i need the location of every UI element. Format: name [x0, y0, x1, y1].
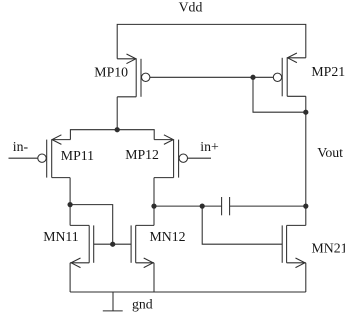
label MP11 [61, 148, 94, 163]
ground rail [70, 291, 306, 293]
wire tap down to MN21 gate [202, 206, 282, 244]
svg-text:Vdd: Vdd [179, 0, 203, 15]
wire in+ lead [188, 157, 212, 159]
label gnd [132, 296, 153, 311]
wire tail rail [70, 130, 154, 140]
svg-text:MP11: MP11 [61, 148, 94, 163]
wire mirror gate-drain connection [70, 205, 113, 245]
node mirror gate junction [111, 242, 115, 246]
label in- [13, 139, 29, 154]
wire MN11 source to ground rail [69, 263, 71, 292]
svg-text:MP21: MP21 [311, 64, 345, 79]
transistor MN11 [70, 225, 94, 267]
svg-text:gnd: gnd [132, 296, 153, 311]
wire gate node to Vout line [253, 77, 306, 112]
wire gate bus MP10-MP21 [150, 76, 273, 78]
net label Vout [317, 145, 343, 160]
node on Vout line [304, 110, 308, 114]
wire MN11-MN12 gate link [94, 243, 131, 245]
transistor MN21 [282, 225, 306, 267]
svg-text:in-: in- [13, 139, 29, 154]
label MN21 [312, 241, 345, 256]
wire MP11 drain column [69, 178, 71, 226]
transistor MP21 [273, 53, 306, 96]
wire MN21 source to ground rail [305, 263, 307, 292]
svg-text:MP10: MP10 [94, 65, 128, 80]
net label Vdd [179, 0, 203, 15]
node tail [115, 128, 119, 132]
label in+ [200, 139, 219, 154]
svg-text:in+: in+ [200, 139, 219, 154]
label MP10 [94, 65, 128, 80]
svg-text:MP12: MP12 [125, 147, 159, 162]
label MN12 [150, 229, 186, 244]
ground symbol [103, 292, 123, 311]
node first stage output [152, 204, 156, 208]
node capacitor tap [200, 204, 204, 208]
wire capacitor to Vout [230, 205, 306, 207]
svg-text:MN21: MN21 [312, 241, 345, 256]
svg-text:MN12: MN12 [150, 229, 186, 244]
node Vout junction [304, 204, 308, 208]
wire MP10 drain to tail node [116, 97, 118, 130]
transistor MP12 [154, 135, 188, 178]
wire in- lead [9, 157, 38, 159]
svg-text:MN11: MN11 [43, 229, 79, 244]
wire node to capacitor [154, 205, 222, 207]
label MN11 [43, 229, 79, 244]
capacitor C [222, 197, 230, 215]
svg-text:Vout: Vout [317, 145, 343, 160]
transistor MP10 [117, 54, 150, 97]
wire MP12 drain column [153, 178, 155, 226]
wire MN12 source to ground rail [153, 263, 155, 292]
wire MP21 drain down Vout line [305, 96, 307, 225]
label MP12 [125, 147, 159, 162]
node gate-drain junction [251, 75, 255, 79]
power rail Vdd [117, 24, 306, 58]
label MP21 [311, 64, 345, 79]
node first stage left [68, 203, 72, 207]
transistor MN12 [131, 225, 154, 267]
transistor MP11 [38, 135, 71, 178]
